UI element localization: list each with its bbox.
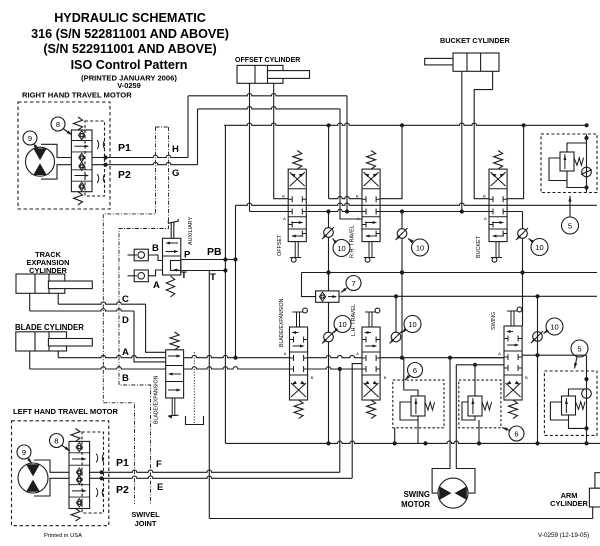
- label offset cylinder: [235, 57, 300, 64]
- label printed in usa: [44, 533, 82, 539]
- wire swing right port: [522, 354, 586, 356]
- arm cylinder rod: [595, 473, 600, 489]
- svg-text:CYLINDER: CYLINDER: [550, 499, 588, 508]
- port relief lht: [390, 332, 402, 344]
- check valve assembly 7: [316, 291, 339, 302]
- port letters swing: [498, 351, 528, 380]
- drain dotted to tank: [193, 352, 195, 423]
- label track expansion cylinder: [27, 250, 70, 275]
- label swing motor: [401, 490, 430, 509]
- relief cartridge A: [411, 396, 435, 416]
- callout circle 9 left motor: [17, 445, 32, 464]
- wire motor M1 to block: [41, 144, 71, 179]
- svg-text:G: G: [172, 168, 179, 179]
- wire feed bucket right: [507, 125, 523, 198]
- arm check valve: [582, 389, 592, 399]
- svg-text:T: T: [181, 270, 187, 281]
- wire P1 right motor: [92, 155, 188, 159]
- wire bottom bus (y=443.4): [225, 441, 600, 445]
- swivel joint boundary inner: [119, 127, 169, 504]
- label right hand travel motor: [22, 91, 132, 100]
- port relief bucket: [516, 228, 528, 240]
- wire port line B-row (y=211.5): [250, 209, 523, 213]
- label blade/expansion v1: [154, 375, 160, 424]
- svg-text:316 (S/N 522811001 AND ABOVE): 316 (S/N 522811001 AND ABOVE): [31, 27, 229, 41]
- wire E riser: [352, 364, 362, 479]
- svg-text:B: B: [122, 373, 129, 384]
- svg-text:BUCKET CYLINDER: BUCKET CYLINDER: [440, 36, 510, 45]
- callout 10 swing: [544, 318, 564, 335]
- wire F: [90, 470, 340, 474]
- label SWING: [491, 312, 497, 330]
- track expansion cylinder body: [16, 274, 65, 293]
- callout 6 B: [502, 426, 524, 441]
- svg-text:BLADE CYLINDER: BLADE CYLINDER: [15, 323, 84, 332]
- svg-text:8: 8: [54, 436, 58, 445]
- label A aux: [153, 280, 160, 291]
- wire arm relief right leg: [584, 355, 588, 443]
- svg-text:P2: P2: [118, 169, 131, 181]
- svg-text:10: 10: [338, 320, 346, 329]
- wire H drop to RH travel valve: [346, 96, 348, 212]
- svg-text:AUXILIARY: AUXILIARY: [188, 217, 194, 245]
- relief A pilot loop: [400, 402, 418, 420]
- label F: [156, 459, 162, 470]
- callout 6 A: [405, 363, 423, 381]
- valve block left travel: [69, 441, 90, 508]
- label E: [157, 482, 163, 493]
- pilot dashed box right motor: [85, 121, 105, 196]
- wire blade cyl port1: [29, 351, 31, 369]
- title line 5: [81, 74, 177, 83]
- title line 4: [71, 58, 188, 72]
- svg-text:HYDRAULIC SCHEMATIC: HYDRAULIC SCHEMATIC: [54, 11, 206, 25]
- port relief offset lower: [322, 332, 334, 344]
- right hand travel motor enclosure: [18, 102, 110, 209]
- callout 10 blade2: [334, 316, 352, 334]
- wire relief trunk rht: [400, 212, 404, 358]
- svg-text:B: B: [483, 194, 486, 199]
- svg-text:9: 9: [22, 448, 26, 457]
- svg-text:A: A: [122, 347, 129, 358]
- wire tank line bottom: [209, 518, 592, 520]
- valve blade/expansion v1: [166, 350, 184, 398]
- svg-text:BUCKET: BUCKET: [476, 235, 482, 258]
- wire bucket cyl port1: [461, 71, 463, 211]
- label G: [172, 168, 179, 179]
- system relief cartridge: [560, 152, 584, 171]
- svg-text:MOTOR: MOTOR: [401, 500, 430, 509]
- aux valve spring: [166, 276, 174, 297]
- wire feed rh travel right: [380, 125, 402, 198]
- spring blade/expansion v1: [170, 332, 179, 350]
- svg-text:BLADE/EXPANSION: BLADE/EXPANSION: [279, 298, 285, 347]
- port relief offset: [322, 227, 334, 239]
- wire P trunk: [233, 205, 237, 360]
- svg-text:(S/N 522911001 AND ABOVE): (S/N 522911001 AND ABOVE): [43, 42, 216, 56]
- valve v1 stem: [168, 398, 179, 419]
- valve swing section: [504, 307, 522, 419]
- throttle upper left motor: [96, 454, 104, 463]
- wire relief A leg2: [394, 428, 396, 444]
- label BUCKET: [476, 235, 482, 258]
- svg-text:OFFSET: OFFSET: [277, 234, 283, 256]
- wire motor M2 to block: [34, 460, 69, 496]
- svg-text:JOINT: JOINT: [135, 519, 157, 528]
- svg-text:V-0259 (12-19-05): V-0259 (12-19-05): [538, 532, 589, 539]
- callout 5 top: [562, 196, 579, 234]
- callout 10 bucket: [529, 239, 549, 256]
- wire relief B bottom: [478, 420, 480, 443]
- wire relief trunk offset: [326, 212, 330, 444]
- label B aux: [152, 243, 159, 254]
- label OFFSET: [277, 234, 283, 256]
- wire track cyl port2: [57, 293, 59, 304]
- bucket cylinder rod: [425, 58, 453, 65]
- check valve A aux: [134, 270, 148, 282]
- label H: [172, 144, 179, 155]
- wire bus return (y=272.5): [302, 270, 598, 274]
- aux valve lever: [168, 219, 178, 238]
- svg-text:C: C: [122, 294, 129, 305]
- svg-text:V-0259: V-0259: [117, 81, 140, 90]
- wire relief B top: [473, 363, 477, 396]
- wire bucket cyl port2 jog: [474, 71, 492, 198]
- valve blade/expansion section: [290, 308, 308, 419]
- svg-text:5: 5: [568, 221, 572, 230]
- spring top of block L: [71, 429, 80, 442]
- label T aux: [181, 270, 187, 281]
- svg-text:10: 10: [337, 244, 345, 253]
- wire swing motor left leg: [432, 358, 450, 493]
- port letters rh travel: [356, 194, 360, 222]
- swing motor M3: [438, 478, 468, 508]
- wire E: [90, 476, 353, 480]
- spring bottom of block: [74, 192, 83, 205]
- label P aux: [184, 250, 191, 261]
- bucket cylinder body: [453, 53, 499, 71]
- svg-text:L.H. TRAVEL: L.H. TRAVEL: [351, 304, 357, 336]
- svg-text:B: B: [356, 194, 359, 199]
- port letters lh travel: [356, 351, 387, 380]
- svg-text:E: E: [157, 482, 163, 493]
- callout circle 8 left motor: [50, 434, 71, 452]
- wire G drop to RH travel valve: [340, 109, 362, 219]
- arm relief cartridge: [562, 396, 586, 415]
- system relief pilot loop: [549, 158, 567, 181]
- throttle lower right motor: [97, 174, 105, 183]
- wire bus 7 inlet: [302, 273, 316, 297]
- offset cylinder rod: [268, 71, 310, 79]
- wire relief swing stub: [535, 296, 539, 443]
- svg-text:P1: P1: [118, 142, 131, 154]
- svg-text:A: A: [357, 216, 360, 221]
- relief enclosure A: [393, 380, 444, 428]
- callout 10 lht: [402, 316, 422, 334]
- wire arm cyl bottom: [592, 507, 594, 519]
- label L.H. TRAVEL: [351, 304, 357, 336]
- callout 5 bottom: [571, 340, 588, 369]
- check valve right box: [581, 167, 592, 177]
- wire bus mid (y=296.3): [339, 294, 597, 298]
- label P2 (right motor): [118, 169, 131, 181]
- callout 7: [341, 276, 361, 293]
- svg-text:A: A: [484, 216, 487, 221]
- wire A long: [58, 355, 504, 359]
- wire H riser: [187, 96, 189, 158]
- valve r.h. travel section: [362, 151, 380, 263]
- wire T trunk: [208, 271, 210, 519]
- svg-text:Printed in USA: Printed in USA: [44, 533, 82, 539]
- pilot dashed box left motor: [82, 432, 104, 513]
- wire bus H (y=95.8): [188, 94, 347, 96]
- svg-text:B: B: [282, 194, 285, 199]
- motor M1 (right travel): [26, 147, 55, 176]
- spring top of block: [74, 117, 83, 130]
- svg-text:10: 10: [550, 322, 558, 331]
- svg-text:ISO Control Pattern: ISO Control Pattern: [71, 58, 188, 72]
- auxiliary valve U2: [163, 238, 181, 275]
- wire offset cyl port2: [274, 83, 289, 198]
- wire T line: [181, 268, 228, 272]
- label blade cylinder: [15, 323, 84, 332]
- label P1 left motor: [116, 457, 129, 469]
- port relief swing: [531, 331, 543, 343]
- system relief top wire: [567, 143, 587, 152]
- title line 6: [117, 81, 140, 90]
- svg-text:B: B: [152, 243, 159, 254]
- wire relief box bottom: [567, 181, 587, 188]
- relief B pilot loop: [462, 402, 475, 420]
- svg-text:BLADE/EXPANSION: BLADE/EXPANSION: [154, 375, 160, 424]
- label D: [122, 315, 129, 326]
- svg-text:6: 6: [413, 366, 417, 375]
- arm relief pilot loop: [550, 402, 568, 420]
- port letters bucket: [483, 194, 487, 222]
- svg-text:10: 10: [535, 243, 543, 252]
- wire D: [30, 309, 134, 311]
- wire swing port2: [456, 364, 504, 366]
- spring bottom of block L: [71, 509, 80, 522]
- track expansion cylinder rod: [48, 281, 92, 289]
- wire pump bus (y=125.3): [224, 123, 589, 127]
- label B wire: [122, 373, 129, 384]
- svg-text:T: T: [210, 272, 216, 283]
- arm relief enclosure: [544, 371, 597, 435]
- svg-text:7: 7: [351, 279, 355, 288]
- svg-text:A: A: [153, 280, 160, 291]
- throttle lower left motor: [96, 488, 104, 497]
- label AUXILIARY: [188, 217, 194, 245]
- wire C drop: [146, 304, 166, 352]
- wire offset cyl port1: [249, 83, 251, 211]
- title line 1: [54, 11, 206, 25]
- wire P line: [181, 257, 238, 261]
- label P2 left motor: [116, 484, 129, 496]
- callout circle 9 right motor: [23, 131, 39, 150]
- valve l.h. travel section: [362, 308, 380, 419]
- svg-text:OFFSET CYLINDER: OFFSET CYLINDER: [235, 57, 300, 64]
- relief cartridge B: [468, 396, 492, 416]
- system relief enclosure: [541, 134, 597, 193]
- label T trunk: [210, 272, 216, 283]
- svg-text:B: B: [384, 375, 387, 380]
- wire blade cyl port2: [57, 351, 59, 358]
- wire relief box right leg: [584, 134, 588, 193]
- svg-text:A: A: [498, 351, 501, 356]
- blade cylinder body: [16, 332, 67, 351]
- arm relief top wire: [569, 389, 587, 396]
- label swivel joint: [131, 510, 160, 528]
- svg-text:P2: P2: [116, 484, 129, 496]
- svg-text:5: 5: [577, 344, 581, 353]
- svg-text:D: D: [122, 315, 129, 326]
- port relief rht: [396, 228, 408, 240]
- wire tank gallery (y=205.3): [236, 203, 598, 205]
- svg-text:SWING: SWING: [491, 312, 497, 330]
- wire relief A bottom: [417, 420, 419, 443]
- svg-text:10: 10: [408, 320, 416, 329]
- swivel joint boundary outer: [103, 127, 168, 504]
- callout 10 offset: [333, 239, 351, 257]
- svg-text:8: 8: [56, 120, 60, 129]
- callout 10 rht: [408, 239, 429, 257]
- svg-text:RIGHT HAND TRAVEL MOTOR: RIGHT HAND TRAVEL MOTOR: [22, 91, 132, 100]
- svg-text:P: P: [184, 250, 191, 261]
- label BLADE/EXPANSION 2: [279, 298, 285, 347]
- svg-text:F: F: [156, 459, 162, 470]
- svg-text:P1: P1: [116, 457, 129, 469]
- wire relief trunk bucket: [520, 212, 524, 327]
- valve bucket section: [489, 151, 507, 263]
- offset cylinder body: [237, 65, 283, 83]
- wire swing port1: [450, 357, 504, 359]
- wire G riser: [197, 109, 199, 165]
- tank symbol: [186, 416, 204, 425]
- valve block right travel: [71, 130, 92, 192]
- label arm cylinder: [550, 491, 588, 508]
- title line 2: [31, 27, 229, 41]
- svg-text:SWING: SWING: [404, 490, 430, 499]
- wire bus G (y=108.9): [198, 107, 341, 109]
- svg-text:10: 10: [416, 243, 424, 252]
- label left hand travel motor: [13, 407, 119, 416]
- svg-text:B: B: [311, 375, 314, 380]
- svg-text:R.H. TRAVEL: R.H. TRAVEL: [350, 225, 356, 258]
- svg-text:H: H: [172, 144, 179, 155]
- blade cylinder rod: [48, 339, 92, 347]
- svg-text:A: A: [283, 216, 286, 221]
- wire P2 right motor: [92, 162, 198, 166]
- wire relief A top: [404, 358, 418, 396]
- svg-text:A: A: [356, 351, 359, 356]
- wire swing motor right leg: [456, 365, 475, 493]
- motor M2 (left travel): [18, 463, 48, 493]
- callout circle 8 right motor: [51, 117, 72, 135]
- valve offset section: [288, 151, 306, 263]
- wire relief lht stub: [395, 296, 397, 332]
- svg-text:PB: PB: [207, 246, 222, 258]
- wire check B stub: [128, 255, 163, 261]
- svg-text:9: 9: [28, 134, 32, 143]
- relief enclosure B: [459, 380, 501, 428]
- wire feed rh travel left: [329, 125, 362, 198]
- title line 3: [43, 42, 216, 56]
- port letters blade/expansion2: [284, 351, 314, 380]
- port letters offset: [282, 194, 286, 222]
- label PB: [207, 246, 222, 258]
- label version bottom: [538, 532, 589, 539]
- wire C: [58, 302, 145, 304]
- label A wire: [122, 347, 129, 358]
- label bucket cylinder: [440, 36, 510, 45]
- wire track cyl port1: [29, 293, 31, 311]
- throttle upper right motor: [97, 140, 105, 149]
- wire PB trunk: [224, 125, 226, 443]
- wire F riser: [339, 369, 341, 472]
- svg-text:B: B: [525, 375, 528, 380]
- label R.H. TRAVEL: [350, 225, 356, 258]
- wire check A stub: [128, 270, 163, 276]
- wire B long: [30, 367, 362, 371]
- check valve B aux: [134, 249, 148, 261]
- left hand travel motor enclosure: [12, 421, 109, 526]
- arm cylinder body: [589, 488, 600, 507]
- svg-text:LEFT HAND TRAVEL MOTOR: LEFT HAND TRAVEL MOTOR: [13, 407, 119, 416]
- label C: [122, 294, 129, 305]
- svg-text:SWIVEL: SWIVEL: [131, 510, 160, 519]
- label P1 (right motor): [118, 142, 131, 154]
- svg-text:6: 6: [514, 429, 518, 438]
- wire D drop: [134, 311, 166, 362]
- arm relief bottom wire: [569, 420, 587, 428]
- svg-text:A: A: [284, 351, 287, 356]
